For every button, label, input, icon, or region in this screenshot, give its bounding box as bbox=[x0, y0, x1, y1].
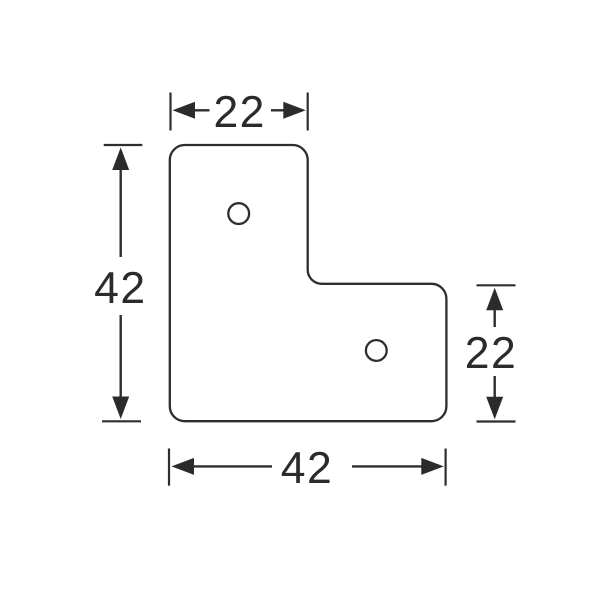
svg-text:22: 22 bbox=[465, 329, 518, 378]
right dimension 22: top extension tick bbox=[477, 284, 516, 286]
svg-text:22: 22 bbox=[213, 88, 266, 137]
bottom dimension 42: left arrow bbox=[172, 458, 195, 475]
top dimension 22: right arrow bbox=[283, 102, 306, 119]
top dimension 22: left arrow bbox=[173, 102, 196, 119]
left dimension 42: bottom extension tick bbox=[102, 420, 141, 422]
left dimension 42: top extension tick bbox=[104, 144, 143, 146]
svg-text:42: 42 bbox=[281, 444, 334, 493]
right dimension 22: bottom arrow bbox=[486, 397, 503, 420]
bottom dimension 42: right arrow bbox=[421, 458, 444, 475]
top dimension 22: left extension tick bbox=[169, 93, 171, 131]
bottom dimension 42: left extension tick bbox=[168, 449, 170, 486]
right dimension 22: top arrow bbox=[486, 288, 503, 311]
left dimension 42: bottom arrow bbox=[112, 397, 129, 420]
right dimension 22: bottom extension tick bbox=[477, 420, 516, 422]
top dimension 22: right extension tick bbox=[307, 93, 309, 131]
L-shaped corner bracket outline bbox=[170, 145, 447, 421]
left dimension 42: top arrow bbox=[112, 148, 129, 171]
bottom dimension 42: right extension tick bbox=[445, 449, 447, 486]
svg-text:42: 42 bbox=[94, 264, 147, 313]
hole H2 (lower arm) bbox=[366, 340, 387, 361]
hole H1 (upper leg) bbox=[228, 203, 249, 224]
